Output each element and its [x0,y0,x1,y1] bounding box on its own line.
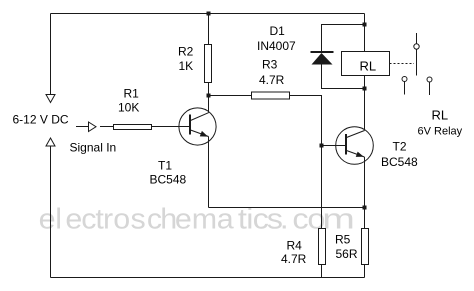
svg-text:T1: T1 [158,159,172,173]
svg-text:1K: 1K [179,59,194,73]
wire relay to T2 collector [364,76,366,131]
resistor R3 [252,92,290,99]
svg-text:Signal In: Signal In [70,141,117,155]
svg-text:m: m [322,203,355,235]
relay contact right lead [429,82,431,95]
signal input arrow [89,122,97,132]
node junction relay bottom [363,87,367,91]
svg-text:RL: RL [360,59,377,74]
svg-text:T2: T2 [393,140,407,154]
wire R2 to T1 collector [208,83,210,113]
wire rail corner down to relay [364,14,366,52]
wire base column down to R4 [321,146,323,229]
wire T2 emitter down [364,157,366,229]
watermark electroschematics.com [39,203,235,235]
node junction emitters [363,206,367,210]
svg-text:BC548: BC548 [150,173,187,187]
wire diode anode link [322,65,365,89]
node junction R2/R3/collector [207,94,211,98]
relay contact right [427,77,432,82]
wire R3 to base column [290,96,322,146]
svg-text:IN4007: IN4007 [257,39,296,53]
relay armature [416,49,418,75]
relay coil RL [342,52,390,76]
node junction top rail / R2 [207,12,211,16]
svg-text:D1: D1 [270,24,286,38]
node junction diode top [363,23,367,27]
wire junction to R3 [209,95,252,97]
svg-text:10K: 10K [118,101,139,115]
resistor R1 [114,125,152,130]
resistor R4 [319,229,326,265]
wire R4 to ground rail [321,265,323,278]
relay actuation dotted link [390,63,415,65]
svg-text:R3: R3 [262,58,278,72]
svg-text:4.7R: 4.7R [281,252,307,266]
resistor R5 [362,229,369,265]
wire T1 emitter down [208,137,210,208]
signal input lead [76,126,89,128]
svg-text:6-12 V DC: 6-12 V DC [13,113,69,127]
diode D1 [311,52,334,65]
transistor T1 [152,108,217,145]
svg-text:BC548: BC548 [381,155,418,169]
node junction T2 base [320,144,324,148]
transistor T2 [322,127,374,165]
svg-text:R1: R1 [124,87,140,101]
wire top supply rail [51,13,365,15]
svg-text:56R: 56R [336,247,358,261]
svg-text:4.7R: 4.7R [259,73,285,87]
svg-text:RL: RL [432,108,449,123]
wire left supply drop [50,14,52,95]
relay armature contact circle [414,44,419,49]
supply arrow down (+) [46,95,55,103]
relay armature lead [416,33,418,44]
svg-text:6V Relay: 6V Relay [418,126,463,138]
svg-text:R4: R4 [287,239,303,253]
relay contact left [402,77,407,82]
wire emitter link T1-T2 [209,207,365,209]
wire bottom ground rail [51,277,365,279]
svg-text:R5: R5 [335,233,351,247]
relay contact left lead [404,82,406,95]
wire diode cathode link [322,25,365,53]
svg-text:electroschema: electroschema [39,203,235,235]
wire arrow to R1 [100,126,114,128]
svg-text:R2: R2 [178,45,194,59]
supply arrow up (-) [46,138,55,146]
wire R5 to ground rail [364,265,366,278]
resistor R2 [205,45,212,83]
wire rail to R2 [208,14,210,45]
wire left ground drop [50,146,52,278]
